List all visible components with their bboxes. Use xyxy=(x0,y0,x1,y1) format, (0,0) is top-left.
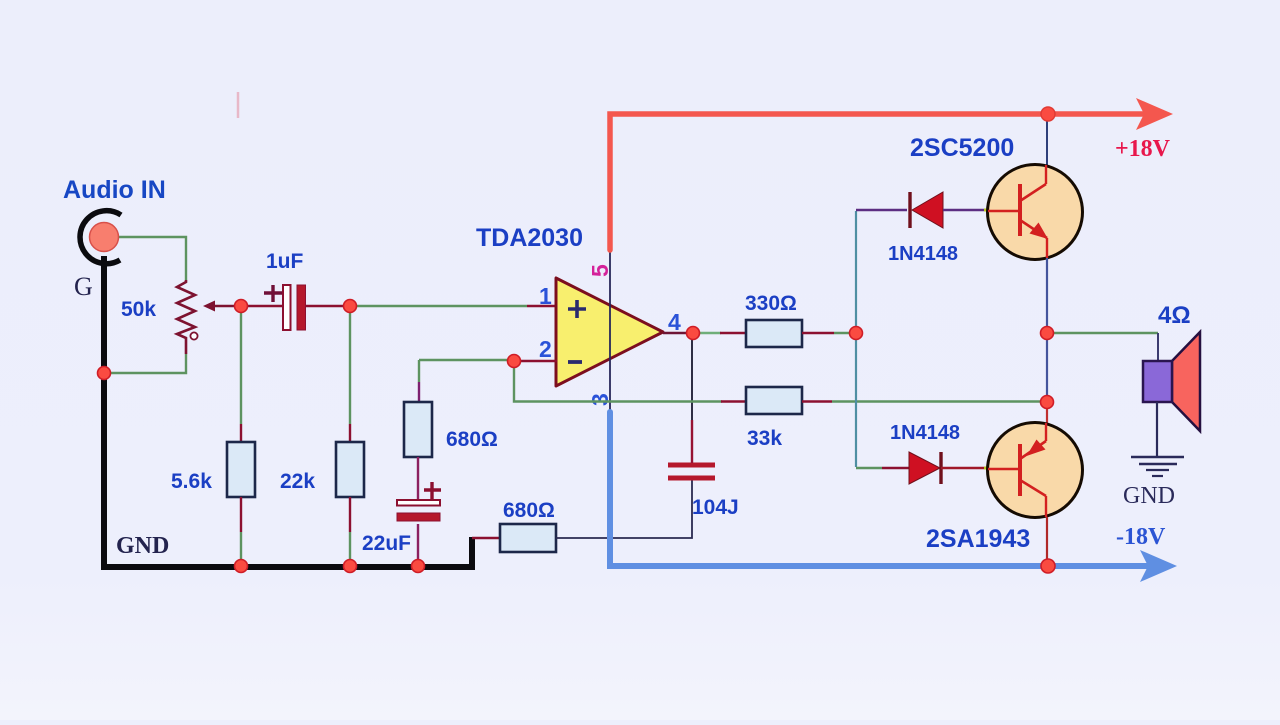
wire 104J to output node xyxy=(691,337,693,463)
junction dot: after 1uF xyxy=(344,300,357,313)
lead 5.6k bottom xyxy=(240,497,242,562)
capacitor C3 104J xyxy=(668,465,715,478)
+18V arrowhead xyxy=(1136,98,1173,130)
resistor R3 22k xyxy=(336,442,364,497)
resistor R2 5.6k xyxy=(227,442,255,497)
junction tick Q2 base xyxy=(984,467,990,470)
junction dot: output node upper xyxy=(1041,327,1054,340)
junction dot: ground 22uF xyxy=(412,560,425,573)
svg-text:2SC5200: 2SC5200 xyxy=(910,134,1014,162)
wire: node down to 5.6k xyxy=(240,309,242,443)
svg-text:22k: 22k xyxy=(280,470,315,493)
svg-text:2SA1943: 2SA1943 xyxy=(926,525,1030,553)
lead 680 horizontal left xyxy=(472,537,501,540)
bias rail vertical (teal) xyxy=(855,211,857,467)
resistor R4 680ohm vertical xyxy=(404,402,432,457)
lead pin2 xyxy=(518,360,557,363)
wire diode to Q2 base xyxy=(941,467,985,470)
junction dot: pot bottom on ground wire xyxy=(98,367,111,380)
lead 330 right xyxy=(802,332,852,335)
svg-text:680Ω: 680Ω xyxy=(446,428,498,451)
lead pin4 to 330 xyxy=(663,332,747,335)
+18V rail (red) xyxy=(610,114,1146,250)
wire node to Q2 xyxy=(1046,402,1048,424)
wire: node down to 22k xyxy=(349,309,351,443)
junction tick Q1 base xyxy=(984,209,990,212)
wire 33k to output node xyxy=(802,400,1044,403)
resistor R6 33k xyxy=(746,387,802,414)
wire Q1 emitter to output node xyxy=(1046,258,1048,330)
-18V rail (blue) xyxy=(610,412,1149,566)
wire to upper diode xyxy=(856,209,907,211)
svg-text:1: 1 xyxy=(539,283,552,309)
capacitor C1 1uF xyxy=(264,285,306,330)
lead 33k left xyxy=(721,400,747,403)
svg-text:22uF: 22uF xyxy=(362,532,411,555)
potentiometer wiper arrow xyxy=(203,301,238,312)
junction dot: +18V rail xyxy=(1041,107,1055,121)
lead 22uF bottom xyxy=(417,524,419,562)
junction dot: pin4 output xyxy=(687,327,700,340)
wire output node upper-lower xyxy=(1046,333,1048,400)
ground wire GND (thick black) xyxy=(104,256,472,567)
diode D1 1N4148 (points left) xyxy=(910,192,943,228)
speaker LS1 xyxy=(1143,332,1200,431)
feedback wire pin2 down xyxy=(514,365,722,402)
audio jack connector xyxy=(80,211,121,264)
junction dot: ground 22k xyxy=(344,560,357,573)
resistor R5 680ohm horizontal xyxy=(500,524,556,552)
svg-text:4: 4 xyxy=(668,309,681,335)
svg-text:TDA2030: TDA2030 xyxy=(476,224,583,252)
junction dot: wiper node xyxy=(235,300,248,313)
junction dot: ground 5.6k xyxy=(235,560,248,573)
wire: jack to pot top xyxy=(116,237,186,280)
svg-text:104J: 104J xyxy=(692,496,739,519)
resistor R7 330ohm xyxy=(746,320,802,347)
svg-text:1N4148: 1N4148 xyxy=(890,422,960,444)
ground symbol xyxy=(1131,457,1184,476)
wire: pot bottom to ground junction xyxy=(106,354,186,373)
svg-text:33k: 33k xyxy=(747,427,782,450)
svg-text:G: G xyxy=(74,272,93,301)
wire: pin2 node to 680 top xyxy=(419,360,510,403)
svg-text:1uF: 1uF xyxy=(266,250,304,273)
op-amp minus marker xyxy=(568,360,582,364)
junction dot: pin2 node xyxy=(508,355,521,368)
transistor Q2 2SA1943 xyxy=(988,423,1083,518)
lead 680 to 22uF xyxy=(417,457,419,501)
capacitor C2 22uF xyxy=(397,482,441,521)
svg-text:50k: 50k xyxy=(121,298,156,321)
svg-text:-18V: -18V xyxy=(1116,524,1166,550)
pin 5/3 stem xyxy=(609,249,611,414)
lead pin1 xyxy=(527,305,557,308)
wire Q2 collector to -18V rail xyxy=(1046,517,1048,563)
-18V arrowhead xyxy=(1140,550,1177,582)
svg-text:+18V: +18V xyxy=(1115,136,1171,162)
svg-text:330Ω: 330Ω xyxy=(745,292,797,315)
wire rail to Q1 collector xyxy=(1046,114,1048,168)
potentiometer 50k zigzag xyxy=(177,280,198,354)
wire: wiper node to 1uF xyxy=(246,305,284,308)
wire: 1uF to node xyxy=(306,305,346,308)
svg-text:4Ω: 4Ω xyxy=(1158,302,1191,329)
svg-text:2: 2 xyxy=(539,336,552,362)
svg-text:680Ω: 680Ω xyxy=(503,499,555,522)
diode D2 1N4148 (points right) xyxy=(909,452,941,484)
svg-text:Audio IN: Audio IN xyxy=(63,176,166,204)
wire 680 to 104J xyxy=(556,480,692,538)
speaker to ground lead xyxy=(1156,402,1158,457)
lead 22k bottom xyxy=(349,497,351,562)
wire output node to speaker xyxy=(1050,333,1158,362)
junction dot: -18V rail xyxy=(1041,559,1055,573)
svg-text:1N4148: 1N4148 xyxy=(888,243,958,265)
junction dot: output node lower xyxy=(1041,396,1054,409)
wire diode to Q1 base xyxy=(943,209,985,211)
svg-text:GND: GND xyxy=(1123,483,1175,509)
wire: node to op-amp pin1 xyxy=(352,305,527,307)
op-amp plus marker xyxy=(568,300,586,318)
artifact pink tick xyxy=(237,92,240,118)
op-amp U1 TDA2030 xyxy=(556,278,663,386)
svg-text:5.6k: 5.6k xyxy=(171,470,212,493)
wire to lower diode xyxy=(856,467,909,469)
transistor Q1 2SC5200 xyxy=(988,165,1083,260)
svg-text:GND: GND xyxy=(116,533,169,559)
junction dot: after 330 xyxy=(850,327,863,340)
